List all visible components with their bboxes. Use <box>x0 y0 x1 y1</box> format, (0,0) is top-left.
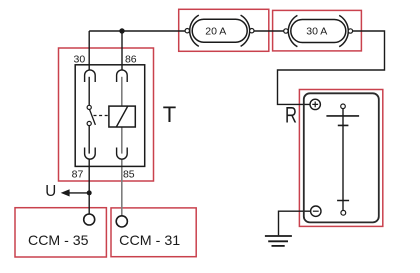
svg-text:30: 30 <box>74 53 86 65</box>
svg-text:85: 85 <box>123 168 135 180</box>
svg-text:30 A: 30 A <box>306 25 327 37</box>
svg-text:87: 87 <box>72 168 84 180</box>
svg-text:20 A: 20 A <box>205 25 226 37</box>
svg-text:R: R <box>285 102 297 127</box>
svg-text:T: T <box>163 102 176 127</box>
svg-text:CCM - 31: CCM - 31 <box>119 232 180 248</box>
svg-text:86: 86 <box>125 53 137 65</box>
svg-text:U: U <box>45 183 56 200</box>
svg-text:CCM - 35: CCM - 35 <box>28 232 89 248</box>
